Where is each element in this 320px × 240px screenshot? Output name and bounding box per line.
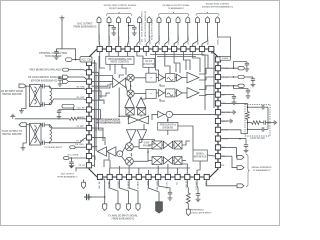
cap bottom 2 (197, 179, 198, 192)
svg-text:FROM BASEBAND IC: FROM BASEBAND IC (112, 218, 135, 221)
filter RX I (146, 73, 156, 82)
serial group brace (246, 155, 250, 187)
svg-text:RX IQ OUTPUT ENABLE: RX IQ OUTPUT ENABLE (151, 18, 154, 40)
svg-text:MODE_1: MODE_1 (198, 37, 200, 44)
top terminal wires (99, 22, 231, 58)
svg-text:TO BASEBAND IC: TO BASEBAND IC (253, 169, 271, 172)
svg-text:VCC_RF: VCC_RF (76, 108, 85, 110)
wire rx gain 1 (58, 76, 63, 78)
ground gnd_vco (220, 111, 231, 113)
top decoupling cap 1 (109, 25, 114, 27)
svg-text:~: ~ (168, 113, 170, 117)
serial arrow sclk (220, 155, 232, 157)
cap bottom left (90, 196, 104, 198)
svg-text:TO BASEBAND IC: TO BASEBAND IC (168, 7, 185, 10)
IC U1 right pins (215, 57, 220, 168)
TX Q chain (152, 157, 162, 165)
cap rx gain (58, 77, 62, 82)
wire tune (220, 102, 247, 104)
wire tx analog 2 (110, 179, 118, 204)
svg-text:STBY_IN: STBY_IN (129, 36, 131, 44)
svg-text:SIGNALS (OPTION BASEBAND IC): SIGNALS (OPTION BASEBAND IC) (202, 6, 233, 9)
svg-text:TX RF OUTPUT TO: TX RF OUTPUT TO (2, 131, 23, 133)
wire rbias (15, 118, 70, 120)
mixer TX I (125, 143, 133, 151)
right pin labels (221, 59, 230, 167)
vcc_bb decoupling (220, 67, 238, 69)
wire gnd_cp (220, 120, 228, 122)
top decoupling cap 2 (129, 25, 135, 27)
mixer TX Q (125, 157, 133, 165)
LNA xbox 1 (126, 108, 134, 115)
TX LO switch (128, 116, 149, 124)
dac arrow terminal (83, 180, 85, 183)
svg-text:TO PA BIAS INPUT: TO PA BIAS INPUT (44, 146, 63, 149)
svg-text:~: ~ (150, 76, 152, 80)
ref osc arrow (186, 209, 190, 215)
block phase shifter (139, 140, 155, 149)
svg-text:RBIAS: RBIAS (78, 116, 85, 119)
chgnd box (220, 56, 230, 60)
arrow tx analog 4 (136, 204, 140, 211)
TX I chain (152, 141, 162, 149)
svg-text:FROM/TO BASEBAND IC: FROM/TO BASEBAND IC (109, 7, 132, 10)
junction optional (75, 59, 77, 61)
svg-text:REFERENCE: REFERENCE (191, 209, 204, 211)
arrow tx analog 3 (126, 204, 130, 211)
svg-text:~: ~ (150, 92, 152, 96)
wire tx_rfn (40, 142, 42, 144)
wire pa bias (75, 146, 87, 148)
TX down-amp 2 (137, 130, 147, 141)
cap tx_rfn (41, 141, 46, 145)
transformer T1 rx balun (30, 85, 42, 107)
limp cap (220, 94, 234, 96)
vcc_lo decoupling (220, 76, 238, 78)
brace digital video signals (107, 12, 132, 16)
svg-text:INTERFACE: INTERFACE (194, 155, 207, 158)
svg-text:RX_RFN: RX_RFN (76, 86, 85, 88)
VCO oscillator circle (166, 111, 172, 117)
ferrite bead FB1 (62, 104, 74, 108)
wire vref (68, 69, 84, 71)
svg-text:VCC_DRVR: VCC_DRVR (67, 155, 79, 157)
svg-text:OSCILLATOR INPUT: OSCILLATOR INPUT (191, 212, 212, 215)
oval terminal vref (63, 68, 69, 71)
svg-text:RX_QOUT+: RX_QOUT+ (178, 35, 180, 45)
svg-text:DIGITAL MODE CONTROL: DIGITAL MODE CONTROL (206, 3, 230, 6)
wire rx gain 2 (69, 81, 87, 83)
RX Q chain (159, 89, 165, 96)
LNA triangle 2 (136, 97, 146, 107)
VCO buffer (158, 111, 164, 118)
TX driver amp 2 (107, 147, 116, 156)
cap tx_rfp (41, 123, 46, 127)
oval terminal pa bias (70, 146, 75, 149)
big ground arrow (149, 179, 160, 201)
svg-text:MODE_0: MODE_0 (218, 37, 220, 44)
svg-text:RX RF INPUT FROM: RX RF INPUT FROM (1, 91, 23, 93)
svg-text:TX_RFN: TX_RFN (76, 141, 84, 143)
svg-text:VCC_CMOS: VCC_CMOS (99, 34, 101, 45)
svg-text:RX_ENAB: RX_ENAB (118, 35, 121, 44)
svg-text:TX_RFP: TX_RFP (76, 126, 84, 128)
loop filter network (245, 104, 270, 136)
svg-text:(OPTION BASEBAND IC): (OPTION BASEBAND IC) (31, 79, 58, 82)
brace digital mode control (196, 12, 219, 16)
wire vcc_drv (69, 157, 87, 159)
resistor RBIAS (69, 117, 78, 120)
oval terminal optional (66, 58, 73, 62)
IC U1 top pins (97, 46, 214, 51)
top pin rotated labels (99, 10, 220, 44)
wire tx analog 1 (104, 180, 106, 205)
svg-text:TX_GC: TX_GC (79, 165, 86, 167)
wire tx_rfp (40, 124, 42, 126)
svg-text:RX_IOUT+: RX_IOUT+ (159, 36, 161, 45)
filter RX Q (146, 90, 156, 99)
interior wires (91, 51, 216, 175)
cap vcc_rf (57, 109, 61, 114)
svg-text:LOOP FILTER: LOOP FILTER (250, 138, 265, 140)
svg-text:FROM BASEBAND IC: FROM BASEBAND IC (57, 176, 78, 179)
svg-text:VREF (BANDGAP) AVAILABLE: VREF (BANDGAP) AVAILABLE (29, 68, 62, 71)
mixer RX I (127, 74, 134, 81)
wire vcc_rf (58, 108, 60, 110)
svg-text:MODE CONTROL: MODE CONTROL (110, 62, 129, 64)
cap rx_rfn (41, 84, 46, 88)
wire rx_rfn (40, 85, 42, 87)
TX down-amp 1 (127, 130, 137, 141)
svg-text:SWITCH AND BPF: SWITCH AND BPF (2, 133, 22, 136)
op IC U1 MAX2538 body (89, 49, 218, 177)
ground T1 (19, 109, 24, 114)
IC U1 left pins (86, 60, 91, 167)
wire tx analog 3 (119, 179, 128, 204)
top terminals (97, 17, 220, 23)
arrow terminal rx gain 1 (63, 75, 69, 79)
svg-text:FROM BASEBAND IC: FROM BASEBAND IC (73, 26, 97, 29)
svg-text:DETECTOR: DETECTOR (143, 64, 156, 66)
RX LO select switch (112, 77, 126, 87)
svg-text:CHGND: CHGND (222, 58, 229, 60)
ground tx out inverted (10, 114, 15, 119)
interior junction dots (95, 85, 168, 153)
serial arrow din (207, 179, 237, 186)
cap vcc_drv (71, 158, 73, 160)
svg-text:N.C.: N.C. (176, 181, 178, 185)
svg-text:OPTIONAL CONNECTION: OPTIONAL CONNECTION (39, 52, 67, 55)
block RX LO detector (143, 58, 155, 67)
arrow terminal rx gain 2 (63, 80, 69, 84)
svg-text:SWITCH AND BPF: SWITCH AND BPF (2, 93, 22, 96)
LNA xbox 2 (138, 108, 146, 115)
svg-text:RX ANALOG OUTPUT SIGNAL: RX ANALOG OUTPUT SIGNAL (162, 4, 190, 7)
tx output terminal (19, 123, 26, 127)
ground top-left (60, 16, 65, 21)
block programmable mode control (106, 56, 134, 64)
transformer T2 tx balun (30, 123, 42, 145)
svg-text:TX_ENAB: TX_ENAB (108, 35, 111, 44)
LNA triangle 1 (125, 97, 135, 107)
svg-text:PA_LMG: PA_LMG (75, 143, 84, 146)
wire optional row (72, 59, 80, 61)
svg-text:VCC_MODE CONTROL SUPPLY IN: VCC_MODE CONTROL SUPPLY IN (145, 11, 147, 42)
wire tx analog 4 (129, 179, 138, 204)
cap optional (56, 48, 62, 50)
wire gnd to cap (62, 20, 76, 60)
svg-text:TO BASEBAND: TO BASEBAND (45, 55, 62, 58)
svg-text:PRESCALER &: PRESCALER & (160, 124, 177, 127)
serial arrow csb (220, 146, 236, 148)
TX driver amp 1 (97, 147, 106, 156)
IC U1 bottom pins (97, 174, 209, 179)
svg-text:DIN: DIN (221, 165, 225, 167)
oval terminal vcc_drv (64, 157, 70, 160)
arrow tx analog 2 (116, 204, 120, 211)
block serial interface (193, 150, 207, 161)
svg-text:RX_IOUT-: RX_IOUT- (169, 36, 171, 45)
svg-text:DAC OUTPUT: DAC OUTPUT (77, 23, 93, 26)
wire tx gain (76, 168, 87, 172)
svg-text:DAC_INP: DAC_INP (98, 180, 101, 188)
svg-text:RX_RFP: RX_RFP (77, 97, 86, 99)
cap bottom 1 (158, 179, 170, 190)
mixer RX Q (127, 90, 134, 97)
svg-text:MODE_2: MODE_2 (208, 37, 210, 44)
svg-text:+: + (119, 152, 121, 156)
svg-text:RX GAIN-CONTROL SIGNALS: RX GAIN-CONTROL SIGNALS (28, 76, 60, 79)
vcc_cm label box (80, 57, 92, 62)
svg-text:TX ANALOG INPUT SIGNAL: TX ANALOG INPUT SIGNAL (108, 215, 138, 218)
rx input terminal (19, 84, 26, 88)
ground T2 (21, 146, 26, 151)
cap rx_rfp (41, 102, 46, 106)
RX I chain (159, 74, 165, 81)
bottom pin rotated labels (98, 180, 208, 190)
brace rx analog output (159, 12, 189, 16)
svg-text:DAC OUTPUT: DAC OUTPUT (61, 172, 75, 175)
svg-text:0°/90°: 0°/90° (144, 143, 150, 145)
svg-text:DIGITAL VIDEO CONTROL SIGNALS: DIGITAL VIDEO CONTROL SIGNALS (104, 4, 137, 7)
arrow tx analog 1 (103, 204, 107, 211)
cap dac (100, 178, 105, 180)
svg-text:PROGRAMMING AND: PROGRAMMING AND (108, 58, 132, 61)
wire rx_rfp (40, 103, 42, 105)
vcc_vco decoupling (220, 85, 238, 87)
block prescaler dividers (158, 122, 178, 130)
svg-text:SERIAL: SERIAL (196, 153, 205, 156)
svg-text:DIVIDERS: DIVIDERS (162, 127, 173, 129)
TX summer (117, 151, 123, 157)
svg-text:SEL_TX RX MODE SELECT INPUT: SEL_TX RX MODE SELECT INPUT (142, 10, 144, 42)
wire cp_out (220, 130, 247, 134)
svg-text:SERIAL INTERFACE: SERIAL INTERFACE (252, 166, 273, 169)
svg-text:VCC_CM: VCC_CM (81, 59, 91, 61)
svg-text:RX_QOUT-: RX_QOUT- (188, 35, 190, 45)
vcc_cp decoupling (220, 138, 246, 140)
resistor bottom (187, 179, 188, 193)
svg-text:MAX2538E/MAX2539E: MAX2538E/MAX2539E (95, 122, 121, 125)
svg-text:TX_BBQN: TX_BBQN (138, 181, 140, 190)
